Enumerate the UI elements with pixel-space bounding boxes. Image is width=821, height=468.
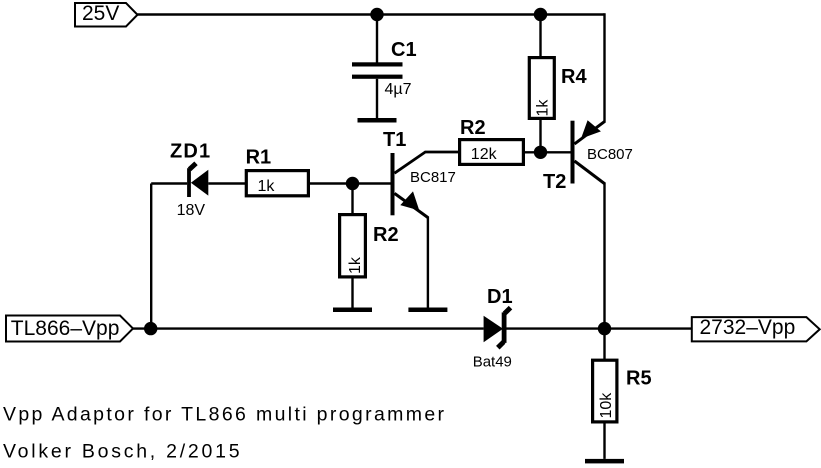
svg-text:T1: T1: [383, 129, 406, 151]
svg-text:TL866–Vpp: TL866–Vpp: [11, 317, 120, 340]
svg-text:10k: 10k: [598, 392, 615, 419]
wire R2 to T2 base: [525, 151, 571, 153]
wire ZD1 left: [151, 182, 187, 184]
svg-text:18V: 18V: [177, 202, 206, 219]
svg-text:R1: R1: [246, 147, 272, 169]
wire C1 bottom: [376, 79, 378, 118]
node junction D1-R5-T2: [598, 322, 611, 335]
node junction R1-R2-T1: [346, 177, 359, 190]
svg-text:1k: 1k: [258, 178, 276, 195]
svg-text:Vpp Adaptor for TL866 multi pr: Vpp Adaptor for TL866 multi programmer: [3, 404, 446, 426]
wire T1 emitter down: [427, 217, 429, 308]
wire R1 to node: [310, 182, 353, 184]
wire C1 top: [376, 15, 378, 64]
wire R4 top: [539, 15, 541, 58]
resistor R1: [246, 147, 309, 196]
wire bottom rail left: [133, 327, 484, 329]
node junction R4-R2-T2: [534, 146, 547, 159]
svg-text:1k: 1k: [347, 256, 364, 274]
wire R2 vertical bottom: [351, 279, 353, 308]
wire T2 emitter feed: [603, 13, 605, 122]
svg-text:R2: R2: [460, 117, 486, 139]
wire R5 bottom: [603, 424, 605, 459]
svg-text:Volker Bosch, 2/2015: Volker Bosch, 2/2015: [3, 441, 242, 463]
zener diode ZD1: [170, 141, 211, 219]
wire ZD1 to R1: [208, 182, 246, 184]
svg-text:D1: D1: [487, 286, 513, 308]
wire R2 vertical top: [351, 184, 353, 215]
diode D1 Bat49: [473, 286, 513, 371]
svg-text:25V: 25V: [82, 2, 119, 25]
resistor R2 1k vertical: [340, 215, 399, 277]
node junction TL866 rail: [144, 322, 157, 335]
ground R5: [585, 459, 624, 464]
wire 25V rail: [138, 13, 605, 15]
resistor R5: [593, 360, 652, 422]
node junction rail-R4: [534, 8, 547, 21]
svg-text:2732–Vpp: 2732–Vpp: [700, 316, 796, 339]
svg-text:BC807: BC807: [587, 146, 633, 163]
transistor T1 BC817: [383, 129, 458, 218]
wire R5 top: [603, 329, 605, 360]
svg-text:C1: C1: [391, 39, 417, 61]
resistor R2 12k: [460, 117, 524, 164]
wire T1 base: [353, 182, 391, 184]
svg-text:R2: R2: [373, 224, 399, 246]
port flag TL866-Vpp: [6, 316, 133, 342]
ground R2: [333, 308, 372, 313]
wire R4 bottom: [539, 120, 541, 153]
supply flag 25V: [75, 2, 138, 27]
svg-text:BC817: BC817: [410, 169, 456, 186]
port flag 2732-Vpp: [692, 316, 820, 341]
resistor R4: [529, 58, 587, 119]
svg-text:T2: T2: [543, 171, 566, 193]
node junction rail-C1: [370, 8, 383, 21]
ground C1: [358, 118, 397, 123]
transistor T2 BC807: [543, 120, 633, 193]
svg-text:1k: 1k: [534, 99, 551, 117]
svg-text:4µ7: 4µ7: [385, 81, 412, 98]
svg-text:R5: R5: [626, 368, 652, 390]
wire T2 collector down: [603, 183, 605, 329]
svg-text:ZD1: ZD1: [170, 141, 211, 163]
svg-text:Bat49: Bat49: [473, 354, 512, 371]
capacitor C1: [352, 39, 417, 98]
wire ZD1 down to rail: [150, 184, 152, 329]
ground T1 emitter: [408, 308, 447, 313]
svg-text:12k: 12k: [471, 146, 498, 163]
svg-text:R4: R4: [561, 66, 587, 88]
wire bottom rail right: [507, 327, 692, 329]
